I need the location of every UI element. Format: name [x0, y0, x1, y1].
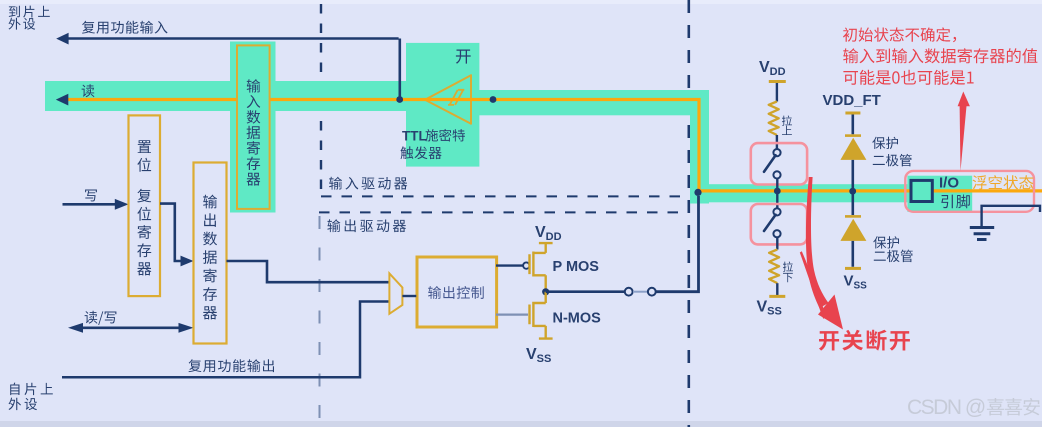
wire diode D1 to pin node [851, 160, 854, 188]
arrowhead AF input [56, 33, 68, 45]
arrowhead read/write right [179, 323, 194, 333]
arrowhead into output data register [181, 256, 194, 267]
schmitt trigger highlight block [406, 43, 479, 167]
junction node pull resistors [774, 188, 781, 195]
wire output data register to mux [227, 261, 390, 282]
svg-text:VDD_FT: VDD_FT [823, 92, 881, 109]
junction node pin corner [694, 189, 701, 196]
wire AF input horizontal [68, 37, 399, 40]
top light strip [0, 0, 1042, 4]
wire output control to NMOS gate [496, 314, 528, 316]
switch SW2 top contact [773, 208, 780, 215]
wire SW2 to pull-down resistor [776, 237, 778, 249]
diode D1 cathode bar [845, 134, 861, 137]
input driver section left dashed border [320, 4, 322, 196]
arrowhead write [115, 199, 129, 210]
switch SW1 bottom contact [773, 171, 780, 178]
label TTL schmitt line2 [400, 146, 441, 159]
label from-on-chip-peripheral line2 [9, 398, 38, 411]
label protection diode 2 [873, 236, 899, 248]
svg-text:CSDN @: CSDN @ [907, 396, 985, 419]
label from-on-chip-peripheral line1 [10, 383, 53, 396]
wire output to pin node [656, 196, 699, 292]
wire AF output [62, 302, 389, 378]
svg-text:N-MOS: N-MOS [553, 311, 602, 327]
ground symbol [970, 228, 994, 240]
red arrow to note (tail) [960, 105, 967, 171]
wire resistor R2 to VSS [776, 283, 778, 295]
schmitt trigger triangle U1 [425, 75, 471, 124]
switch SW1 top contact [773, 149, 780, 156]
wire pin node to diode D2 [851, 194, 854, 215]
switch SW1 lever [764, 155, 776, 172]
PMOS Q1 symbol [530, 243, 553, 292]
VSS rail bar pull-down [769, 295, 785, 298]
wire diode D2 to VSS [851, 241, 854, 267]
output control label [428, 286, 484, 299]
input data register highlight [230, 42, 276, 213]
pull-up resistor R1 [769, 102, 779, 136]
switch SW2 lever [764, 215, 776, 231]
wire AF input vertical tap [398, 39, 401, 98]
junction node protection diodes [849, 188, 856, 195]
schmitt trigger hysteresis mark [448, 90, 464, 105]
VDD_FT rail bar [845, 112, 860, 115]
label pin [941, 195, 970, 209]
label output driver section [327, 219, 406, 232]
diode D2 cathode bar [845, 215, 861, 218]
I/O pin annotation box (pink) [905, 171, 1034, 212]
junction node AF-tap [396, 96, 403, 103]
driver section right dashed border [687, 0, 690, 427]
read-path highlight band left [45, 81, 406, 111]
wire between contacts [633, 291, 648, 293]
read-path highlight band lower [690, 184, 907, 202]
bottom shaded strip [0, 421, 1042, 427]
wire main read path (orange) [68, 100, 1042, 191]
NMOS Q2 symbol [530, 292, 553, 339]
pull-up switch box [751, 143, 807, 184]
output driver section top dashed border [319, 211, 687, 213]
input data register box [237, 45, 270, 209]
wire write [63, 203, 116, 206]
junction node schmitt output [490, 96, 497, 103]
label input driver section [329, 177, 407, 190]
input data register label [247, 79, 261, 186]
label alternate function input [82, 21, 168, 34]
diode D2 (to VSS) [840, 219, 866, 241]
label pull-down [783, 262, 793, 283]
red arrow switch-open head [818, 295, 843, 330]
label switch open (red) [819, 330, 910, 351]
wire set/reset to output register [160, 204, 184, 261]
read-path highlight vertical strip [690, 90, 709, 204]
switch SW2 bottom contact [773, 230, 780, 237]
red note line3 [843, 70, 973, 85]
svg-text:P MOS: P MOS [553, 259, 600, 275]
VDD rail bar [769, 80, 786, 83]
label pull-up [782, 116, 792, 136]
label to-on-chip-peripheral line2 [9, 18, 36, 30]
wire pin to ground [982, 206, 1040, 226]
label alternate function output [189, 359, 275, 372]
label protection diode 1 [872, 137, 898, 149]
red note line1 [843, 27, 956, 42]
junction node push-pull output [542, 288, 549, 295]
I/O pin highlight box [907, 176, 972, 212]
read-path highlight band right [479, 90, 709, 115]
label schmitt on [456, 50, 471, 64]
wire mux to output control [402, 295, 416, 297]
label write [85, 190, 97, 202]
red arrow switch-open shaft [806, 177, 829, 308]
wire read wire to SW2 [776, 194, 778, 208]
pull-down resistor R2 [769, 250, 779, 284]
output mux trapezoid [389, 273, 402, 313]
label read [82, 84, 95, 97]
wire VDD to pull-up resistor [776, 83, 778, 102]
svg-text:TTL: TTL [402, 128, 427, 143]
wire SW1 to read wire [776, 178, 778, 188]
output control box [417, 257, 497, 327]
output driver section left dashed border [319, 216, 321, 427]
switch contact circle right [648, 288, 656, 296]
switch contact circle left [625, 288, 633, 296]
red note line2 [843, 48, 1037, 63]
label read/write [85, 311, 117, 325]
wire resistor to switch SW1 [776, 135, 778, 149]
output data register box [194, 163, 227, 344]
PMOS gate bubble [523, 262, 529, 268]
set/reset register box [129, 115, 161, 296]
pull-down switch box [751, 204, 807, 244]
input driver section bottom dashed border [321, 195, 687, 197]
label floating state [973, 175, 1034, 189]
arrowhead read wire [56, 94, 69, 106]
output data register label [203, 195, 217, 320]
red arrow switch-open second tail [800, 251, 827, 319]
set/reset register label [137, 140, 151, 275]
VSS rail bar diode [845, 267, 861, 270]
wire read/write double arrow [77, 326, 185, 329]
red arrow to note (head) [958, 92, 970, 107]
diode D1 (to VDD_FT) [840, 138, 866, 160]
wire VDD_FT to diode D1 [851, 115, 854, 135]
I/O pin symbol square [911, 180, 932, 201]
wire output control to PMOS gate [496, 264, 523, 266]
wire push-pull output [546, 290, 625, 293]
label to-on-chip-peripheral line1 [9, 6, 50, 18]
arrowhead read/write left [68, 323, 83, 333]
svg-text:I/O: I/O [939, 174, 959, 191]
